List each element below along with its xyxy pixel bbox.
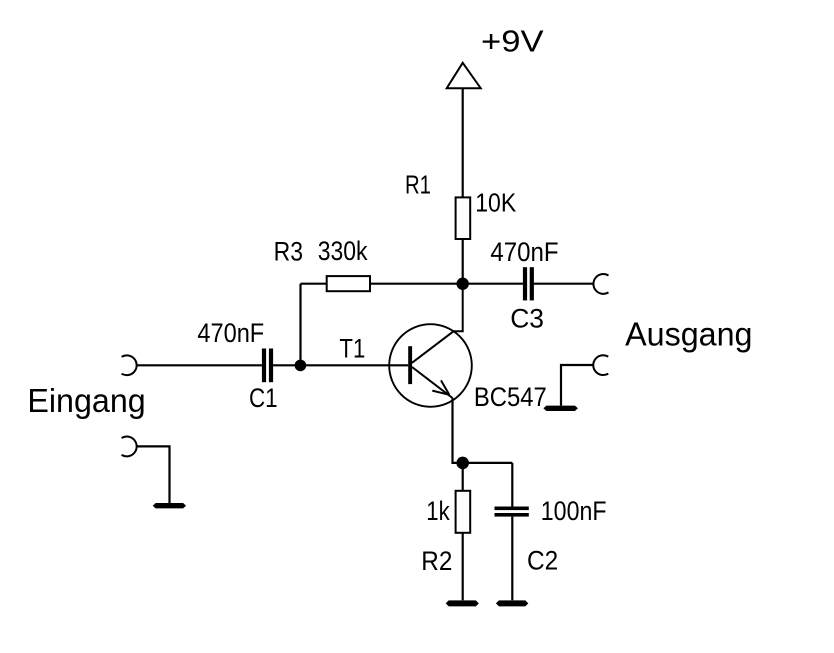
svg-text:T1: T1 <box>339 333 365 363</box>
svg-text:1k: 1k <box>426 496 450 526</box>
svg-text:10K: 10K <box>475 188 517 218</box>
power symbol +9V (triangle) <box>447 63 481 88</box>
wire R2 to ground <box>462 533 464 600</box>
input connector (signal) <box>122 355 137 375</box>
resistor R1 <box>456 197 471 239</box>
input connector (ground side) <box>122 437 137 457</box>
svg-text:+9V: +9V <box>481 24 544 59</box>
wire output jack sleeve <box>561 365 593 406</box>
ground (C2) <box>496 600 528 606</box>
svg-text:R2: R2 <box>421 546 452 576</box>
transistor T1 circle <box>389 324 472 407</box>
capacitor C2 <box>495 507 529 517</box>
resistor R2 <box>456 491 471 533</box>
wire input jack sleeve <box>137 446 169 503</box>
svg-text:C3: C3 <box>510 303 544 333</box>
wire C1 to base <box>273 364 408 366</box>
wire C2 branch down <box>511 463 513 507</box>
ground (input jack) <box>153 503 186 508</box>
wire emitter node to R2 <box>462 463 464 491</box>
output connector (ground side) <box>593 355 608 375</box>
transistor T1 emitter arrow <box>432 380 449 394</box>
svg-text:R3: R3 <box>274 237 303 267</box>
wire emitter down <box>453 398 513 463</box>
ground (output jack) <box>543 406 578 411</box>
svg-text:Ausgang: Ausgang <box>625 316 752 353</box>
output connector (signal) <box>593 274 608 294</box>
wire R3 to C3 (through collector node) <box>370 283 523 285</box>
svg-text:470nF: 470nF <box>197 318 264 348</box>
node collector junction <box>457 278 469 290</box>
transistor T1 base bar <box>408 346 412 384</box>
wire supply to R1 <box>462 88 464 197</box>
svg-text:Eingang: Eingang <box>27 383 145 420</box>
wire input jack to C1 <box>137 364 262 366</box>
svg-text:330k: 330k <box>318 236 368 266</box>
capacitor C3 <box>523 267 534 300</box>
node emitter junction <box>456 457 469 470</box>
svg-text:470nF: 470nF <box>490 237 558 267</box>
svg-text:100nF: 100nF <box>541 496 607 526</box>
wire R3 down to base node <box>299 284 301 366</box>
ground (R2) <box>446 600 479 606</box>
wire R3 left lead <box>301 283 327 285</box>
svg-text:R1: R1 <box>405 170 431 200</box>
svg-text:C2: C2 <box>527 546 558 576</box>
svg-text:C1: C1 <box>249 383 278 413</box>
svg-text:BC547: BC547 <box>474 382 547 412</box>
resistor R3 <box>327 276 370 291</box>
capacitor C1 <box>262 349 273 383</box>
node base junction <box>295 360 307 372</box>
wire R1 to collector node <box>462 239 464 284</box>
transistor T1 emitter stroke <box>412 367 453 398</box>
transistor T1 collector stroke <box>412 284 463 363</box>
wire C3 to output jack <box>534 283 593 285</box>
wire C2 to ground <box>511 517 513 601</box>
